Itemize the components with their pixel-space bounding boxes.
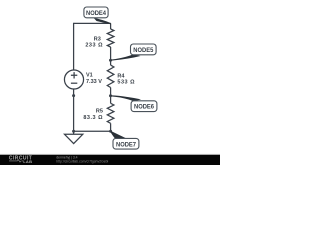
svg-text:R3: R3: [94, 36, 101, 42]
svg-text:NODE5: NODE5: [133, 47, 153, 54]
svg-text:533 Ω: 533 Ω: [117, 80, 135, 86]
svg-text:83.3 Ω: 83.3 Ω: [83, 115, 103, 121]
svg-text:NODE7: NODE7: [116, 141, 136, 148]
svg-text:7.33 V: 7.33 V: [86, 79, 102, 85]
svg-text:NODE4: NODE4: [86, 10, 106, 17]
svg-text:233 Ω: 233 Ω: [85, 43, 103, 49]
svg-text:LAB: LAB: [23, 159, 32, 164]
svg-text:http://circuitlab.com/c/7tgahv: http://circuitlab.com/c/7tgahv2Gebl: [56, 159, 108, 163]
svg-text:NODE6: NODE6: [134, 104, 154, 111]
svg-text:R5: R5: [96, 109, 103, 115]
svg-text:V1: V1: [86, 73, 93, 79]
